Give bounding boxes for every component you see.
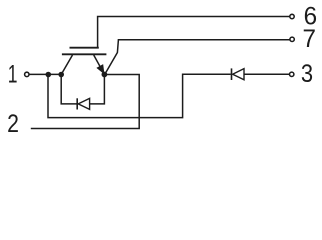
wire diode D2 to terminal 3 xyxy=(244,73,289,75)
terminal 3 label xyxy=(301,60,313,88)
terminal 2 label xyxy=(7,109,19,137)
node A junction dot xyxy=(46,72,52,78)
terminal 6 circle xyxy=(290,14,294,18)
svg-text:7: 7 xyxy=(302,25,315,52)
diode D1 cathode bar xyxy=(76,98,78,109)
IGBT Q1 collector diagonal xyxy=(62,55,73,74)
wire node B down to diode D1 xyxy=(61,75,76,104)
terminal 3 circle xyxy=(290,72,294,76)
IGBT Q1 emitter arrowhead xyxy=(97,65,104,74)
diode D1 triangle xyxy=(78,98,89,109)
wire node C to terminal 2 xyxy=(31,75,139,129)
wire emitter node to terminal 7 xyxy=(105,40,290,74)
wire node A loop to diode D2 xyxy=(48,74,231,117)
IGBT Q1 emitter diagonal xyxy=(94,55,104,73)
svg-text:3: 3 xyxy=(301,60,313,88)
wire terminal1 to node B xyxy=(29,73,61,75)
wire diode D1 to node C xyxy=(90,75,105,104)
wire gate to terminal 6 xyxy=(98,17,290,49)
terminal 7 label xyxy=(302,25,315,52)
terminal 6 label xyxy=(304,3,317,30)
node C (emitter) junction dot xyxy=(102,72,108,78)
node B junction dot xyxy=(58,72,64,78)
svg-text:1: 1 xyxy=(8,59,18,88)
svg-text:2: 2 xyxy=(7,109,19,137)
terminal 1 label xyxy=(8,59,18,88)
IGBT Q1 gate bar xyxy=(70,47,99,49)
terminal 1 circle xyxy=(25,72,29,76)
terminal 7 circle xyxy=(290,37,294,41)
diode D2 cathode bar xyxy=(231,68,233,80)
IGBT Q1 body bar xyxy=(62,53,107,55)
diode D2 triangle xyxy=(233,69,244,80)
